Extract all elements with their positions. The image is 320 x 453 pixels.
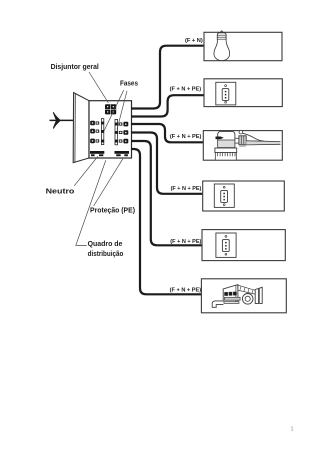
wire circuit 2 (to socket 1) bbox=[131, 95, 204, 116]
svg-text:(F + N): (F + N) bbox=[185, 38, 203, 44]
svg-text:Proteção (PE): Proteção (PE) bbox=[90, 207, 136, 215]
svg-text:(F + N + PE): (F + N + PE) bbox=[170, 134, 202, 140]
left breaker row 1 bbox=[90, 121, 99, 126]
panel front face (quadro) bbox=[89, 101, 132, 158]
PE bar bbox=[115, 151, 130, 156]
wire circuit 5 (to socket 3) bbox=[131, 141, 202, 245]
svg-text:(F + N + PE): (F + N + PE) bbox=[170, 239, 201, 245]
svg-text:Disjuntor geral: Disjuntor geral bbox=[51, 62, 99, 71]
neutral bar bbox=[90, 151, 104, 156]
svg-text:(F + N + PE): (F + N + PE) bbox=[170, 287, 202, 293]
svg-text:Quadro de: Quadro de bbox=[88, 239, 123, 248]
load box 2 (socket) bbox=[204, 79, 282, 107]
svg-text:(F + N + PE): (F + N + PE) bbox=[170, 87, 202, 93]
leader line disjuntor geral bbox=[89, 72, 108, 103]
load box 4 (socket) bbox=[203, 181, 285, 211]
socket 2 plate bbox=[214, 184, 234, 207]
left breaker row 3 bbox=[90, 139, 99, 144]
leader line protecao bbox=[94, 158, 124, 206]
wire circuit 6 (to tap) bbox=[131, 149, 202, 294]
wire circuit 1 (to lamp) bbox=[131, 46, 204, 109]
socket 3 plate bbox=[216, 233, 236, 257]
tap spout bbox=[212, 301, 223, 307]
svg-text:1: 1 bbox=[291, 427, 294, 433]
tap valve wheel bbox=[242, 294, 253, 305]
service entrance arrow bbox=[54, 113, 61, 128]
lamp cap bbox=[217, 33, 226, 41]
leader line fases (left bus) bbox=[104, 90, 124, 130]
shower arm ring bbox=[239, 130, 243, 134]
lamp hanger bbox=[219, 31, 224, 34]
leader line neutro bbox=[74, 156, 98, 185]
tap wall pipe (hatched) bbox=[238, 285, 260, 295]
svg-text:(F + N + PE): (F + N + PE) bbox=[171, 186, 202, 192]
right breaker row 1 bbox=[119, 122, 129, 127]
lamp bulb bbox=[214, 41, 230, 61]
shower head body bbox=[218, 131, 235, 147]
load box 3 (electric shower) bbox=[203, 131, 282, 161]
tap wall bracket bbox=[255, 287, 262, 303]
shower outlet stub bbox=[235, 138, 239, 143]
shower arm curve bbox=[243, 133, 265, 141]
socket 1 plate bbox=[216, 82, 236, 105]
right breaker row 3 bbox=[119, 139, 129, 144]
shower spreader bbox=[215, 148, 237, 153]
shower water comb bbox=[215, 153, 236, 161]
shower wire arrow bbox=[216, 137, 224, 140]
leader line quadro bbox=[76, 160, 106, 245]
left breaker row 2 bbox=[90, 129, 99, 134]
load box 6 (electric tap) bbox=[201, 279, 286, 313]
main breaker (disjuntor geral) bbox=[105, 104, 116, 114]
right phase bus bar bbox=[115, 119, 118, 144]
right breaker row 2 bbox=[119, 130, 129, 135]
svg-text:Fases: Fases bbox=[120, 81, 138, 88]
load box 1 (lamp) bbox=[204, 32, 282, 60]
wire circuit 4 (to socket 2) bbox=[131, 133, 202, 194]
tap body bbox=[223, 285, 240, 304]
service entrance feed wire bbox=[50, 119, 74, 121]
panel door (side face) bbox=[73, 93, 89, 163]
left phase bus bar bbox=[101, 119, 104, 145]
wire circuit 3 (to shower) bbox=[131, 124, 203, 142]
shower pipe nut bbox=[239, 136, 246, 147]
load box 5 (socket) bbox=[202, 230, 285, 261]
leader line fases (right bus) bbox=[117, 91, 127, 130]
svg-text:Neutro: Neutro bbox=[46, 186, 75, 195]
shower pipe bbox=[246, 141, 280, 145]
svg-text:distribuição: distribuição bbox=[88, 249, 124, 258]
